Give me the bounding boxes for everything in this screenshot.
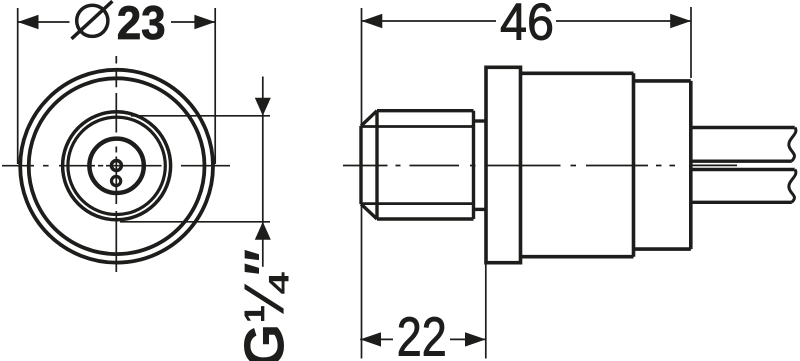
thread crest top — [377, 109, 474, 112]
chamfer bottom — [361, 204, 377, 219]
extension line left shared — [361, 8, 363, 359]
extension line left — [17, 8, 19, 164]
svg-text:23: 23 — [117, 0, 166, 50]
extension line top — [131, 115, 270, 117]
cone junction line — [375, 111, 378, 219]
second body circle — [29, 78, 205, 254]
dimension line — [362, 20, 497, 22]
extension line bottom — [120, 221, 270, 223]
thread root top — [361, 125, 474, 128]
arrow right — [670, 14, 691, 28]
dimension line — [18, 21, 70, 23]
hex flange — [486, 67, 521, 262]
vertical centerline left view — [115, 56, 117, 272]
centerline last dash in cable gap — [691, 164, 737, 166]
arrow right — [194, 15, 215, 29]
dimension line vertical — [262, 77, 264, 267]
main body right face — [632, 73, 636, 256]
arrow up — [255, 222, 271, 240]
small port hole lower — [112, 176, 121, 185]
cable bottom wire bottom edge — [691, 201, 792, 204]
svg-text:G¼″: G¼″ — [233, 249, 297, 361]
small port hole upper — [111, 161, 121, 171]
cable top wire top edge — [691, 126, 795, 129]
cable bottom wire top edge — [691, 168, 795, 171]
connector top — [634, 79, 691, 83]
thread left face — [359, 126, 362, 204]
neck bottom — [474, 208, 487, 211]
horizontal centerline left view — [2, 165, 230, 167]
diameter symbol — [77, 5, 108, 36]
svg-text:46: 46 — [500, 0, 554, 51]
extension line right — [485, 263, 487, 359]
outer body circle — [20, 70, 213, 263]
centerline right view — [343, 165, 675, 167]
neck top — [474, 119, 487, 122]
arrow left — [362, 14, 383, 28]
thread crest circle — [63, 112, 171, 220]
inner boss circle — [89, 139, 143, 193]
arrow left — [360, 332, 381, 346]
thread root bottom — [361, 202, 474, 205]
cable top wire bottom edge — [691, 159, 792, 162]
svg-text:22: 22 — [397, 307, 447, 361]
cable bottom wire break — [789, 170, 796, 203]
thread crest bottom — [377, 217, 474, 220]
dimension line — [360, 338, 393, 340]
extension line right — [214, 8, 216, 164]
connector right face — [689, 81, 693, 249]
main body bottom — [521, 255, 634, 259]
arrow right — [465, 332, 486, 346]
arrow left — [18, 15, 39, 29]
arrow down — [255, 98, 271, 116]
cable top wire break — [789, 128, 796, 162]
chamfer top — [361, 111, 377, 126]
connector bottom — [634, 247, 691, 251]
main body top — [521, 72, 634, 76]
thread root circle — [68, 117, 165, 214]
extension line right — [690, 7, 692, 78]
thread end face — [472, 111, 475, 219]
